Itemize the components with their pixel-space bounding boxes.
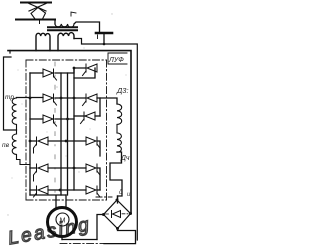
wire row4 right — [97, 141, 100, 156]
wire row5 right — [97, 168, 100, 190]
node row1 — [73, 67, 76, 70]
node bridge left — [102, 213, 105, 216]
wire row6 — [30, 189, 86, 191]
wire row6 right — [97, 189, 100, 191]
diode inside bridge — [112, 211, 121, 218]
inductor L4 — [117, 104, 122, 133]
wire bus x67 — [67, 73, 69, 195]
wire lower bus — [8, 51, 131, 214]
wire bus x74 — [73, 68, 75, 190]
wire to ground — [74, 22, 100, 32]
inductor L3 — [12, 134, 30, 165]
node bridge right — [129, 212, 132, 215]
thyristor V5 — [43, 115, 57, 126]
thyristor V9 — [34, 164, 49, 181]
node row2 b — [60, 97, 63, 100]
enclosure dash-dot left — [25, 60, 27, 200]
wire bridge left lead — [97, 215, 104, 240]
inductor L1 — [55, 24, 74, 27]
wire row3 right — [74, 115, 86, 117]
wire row2 right — [97, 98, 100, 116]
scan speckles — [7, 13, 126, 215]
thyristor V3 — [43, 94, 57, 105]
transformer T1 winding A — [36, 33, 50, 50]
ground — [96, 32, 112, 35]
thyristor V6 — [81, 112, 96, 124]
wire row2 — [17, 97, 44, 99]
watermark — [6, 214, 92, 246]
node row2 a — [29, 97, 32, 100]
wire upper bus — [74, 39, 137, 241]
wire bus x61 — [60, 73, 62, 195]
wire diamond top lead — [117, 196, 119, 200]
wire left border — [4, 51, 17, 131]
wire motor bottom — [61, 237, 63, 240]
svg-text:М: М — [60, 218, 66, 225]
wire to L4 — [100, 98, 117, 104]
wire row1 mid — [55, 68, 86, 73]
node ground-net — [103, 43, 106, 46]
wire row2 mid — [55, 97, 86, 99]
wire motor right lead — [65, 195, 67, 208]
svg-text:Д3:: Д3: — [116, 86, 129, 95]
wire row1 loop — [74, 68, 95, 78]
wire row5 — [30, 167, 86, 169]
wire ground tick — [97, 35, 99, 39]
node bridge bottom — [116, 227, 119, 230]
wire bottom dashdot — [60, 243, 104, 245]
wire drop — [54, 20, 56, 25]
enclosure dash-dot stub — [96, 196, 112, 198]
wire row4 — [30, 140, 86, 142]
wire bridge axis — [106, 213, 129, 215]
inductor L2 — [12, 98, 16, 135]
wire ground tap — [103, 35, 105, 45]
thyristor V4 — [83, 94, 98, 106]
motor M1 — [48, 208, 77, 237]
wire row3 mid — [55, 118, 74, 120]
node row3 — [66, 118, 69, 121]
rectifier bridge — [104, 200, 131, 229]
switch contact X — [29, 4, 46, 12]
wire second top line — [16, 19, 55, 21]
transformer T1 winding B — [58, 33, 74, 51]
wire pentagon foot — [39, 20, 41, 24]
thyristor V7 — [34, 137, 49, 153]
transformer T1 core — [48, 27, 77, 30]
thyristor V10 — [86, 164, 100, 175]
wire row3 end — [95, 115, 100, 117]
wire row3 left — [30, 118, 43, 120]
enclosure dash-dot bottom — [26, 199, 107, 201]
inductor L5 — [117, 133, 121, 152]
fuse body — [31, 8, 46, 20]
node row4 a — [29, 140, 32, 143]
thyristor V8 — [86, 137, 100, 148]
node row2 c — [73, 97, 76, 100]
enclosure dash-dot top — [26, 59, 107, 61]
wire bottom rail — [62, 239, 97, 241]
wire bottom right rail — [104, 231, 136, 244]
enclosure dash-dot right — [106, 60, 108, 200]
node row4 b — [65, 140, 68, 143]
svg-text:ЛУФ: ЛУФ — [108, 57, 124, 64]
label tick — [71, 12, 76, 16]
node row6 — [59, 189, 62, 192]
wire row1 left — [30, 72, 43, 74]
thyristor V1 — [43, 69, 57, 80]
node row5 — [73, 167, 76, 170]
thyristor V2 — [83, 64, 98, 76]
thyristor V11 — [34, 186, 49, 197]
svg-text:пв: пв — [2, 142, 10, 149]
thyristor V12 — [86, 186, 100, 197]
wire top line — [21, 2, 51, 4]
wire bus x30 — [29, 73, 31, 195]
wire staircase — [110, 152, 122, 203]
wire motor left — [30, 195, 66, 208]
enclosure dash-dot divider — [54, 62, 56, 198]
label box — [108, 53, 127, 64]
node bridge top — [116, 199, 119, 202]
